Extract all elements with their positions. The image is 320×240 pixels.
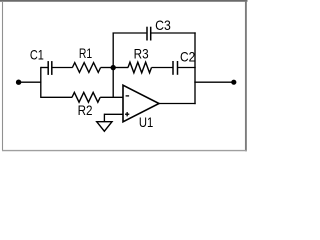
wire: R1 to node: [101, 67, 114, 69]
wire: input riser vertical: [40, 67, 42, 98]
input terminal dot: [16, 80, 21, 85]
wire: R2 to inverting input: [100, 96, 123, 98]
ground: [97, 122, 112, 132]
output terminal dot: [231, 80, 236, 85]
wire: node to R3: [113, 67, 128, 69]
wire: feedback column vertical: [194, 32, 196, 104]
wire: riser to R2: [41, 96, 72, 98]
op-amp U1: [123, 85, 159, 130]
wire: output tap: [194, 81, 233, 83]
wire: C1 to R1: [52, 67, 73, 69]
svg-text:R2: R2: [78, 103, 93, 118]
wire: input terminal to riser: [19, 81, 42, 83]
wire: C3 branch right: [151, 32, 196, 34]
wire: node riser (C3 branch to inverting input): [112, 33, 114, 98]
wire: non-inverting input and ground drop: [104, 114, 123, 122]
wire: C3 branch left: [113, 32, 147, 34]
svg-text:R1: R1: [79, 46, 92, 61]
svg-text:C3: C3: [155, 18, 171, 33]
svg-text:C2: C2: [180, 50, 195, 65]
wire: op-amp output: [159, 103, 196, 105]
resistor R3: [128, 47, 152, 73]
svg-text:U1: U1: [139, 115, 153, 130]
capacitor C3: [147, 18, 171, 41]
capacitor C2: [173, 50, 195, 75]
resistor R2: [72, 92, 100, 118]
capacitor C1: [30, 48, 52, 75]
wire: riser to C1: [41, 67, 48, 69]
wire: R3 to C2: [152, 67, 174, 69]
svg-text:C1: C1: [30, 48, 44, 63]
resistor R1: [72, 46, 100, 72]
junction node dot: [111, 65, 116, 70]
wire: C2 to feedback column: [178, 67, 196, 69]
svg-text:R3: R3: [134, 47, 149, 62]
